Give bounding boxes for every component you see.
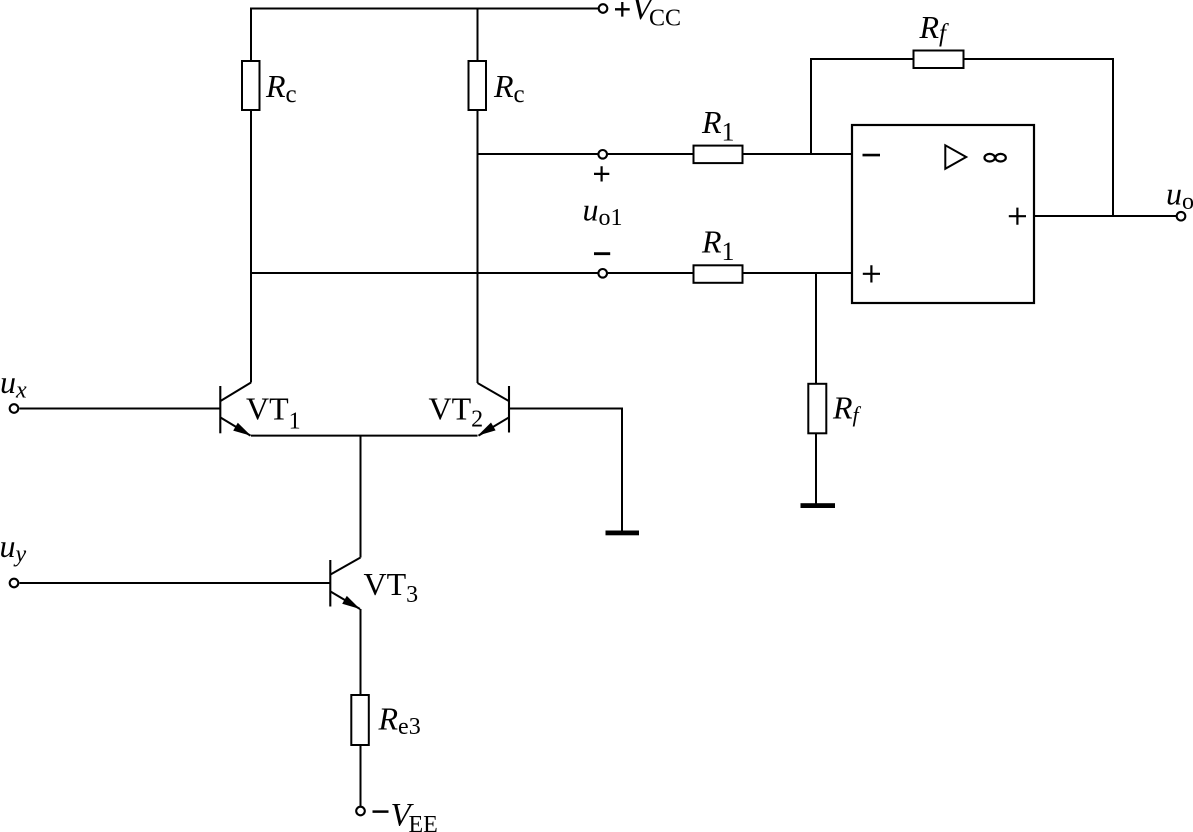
node uo1 minus wire from left collector [251, 272, 598, 274]
wire left collector rail upper [250, 8, 252, 62]
marker plus at uo1 top terminal [594, 166, 609, 181]
marker minus at uo1 bottom terminal [594, 252, 610, 255]
transistor VT3 emitter diagonal [331, 592, 361, 610]
svg-text:Re3: Re3 [378, 701, 421, 741]
ground symbol at Rf [801, 503, 836, 508]
svg-text:uo1: uo1 [583, 192, 623, 232]
wire left collector rail lower [250, 110, 252, 383]
transistor VT3 base bar [329, 560, 331, 607]
wire VT2 base to ground corner [509, 409, 622, 531]
resistor Rf feedback body [914, 51, 964, 69]
wire uo1 plus to R1 [608, 153, 694, 155]
wire feedback top left segment [810, 58, 914, 60]
wire common emitter to VT3 collector [360, 436, 362, 558]
transistor VT1 base bar [219, 386, 221, 433]
svg-text:Rc: Rc [493, 68, 525, 108]
svg-text:Rf: Rf [919, 9, 950, 47]
svg-text:uy: uy [0, 528, 27, 568]
svg-text:R1: R1 [701, 104, 735, 147]
svg-text:VT2: VT2 [429, 391, 484, 433]
wire top supply rail [251, 8, 598, 10]
transistor VT3 emitter arrowhead [342, 596, 360, 609]
svg-text:Rc: Rc [265, 68, 297, 108]
label -VEE minus sign [373, 810, 389, 813]
transistor VT1 collector diagonal [221, 383, 252, 402]
wire noninverting node to Rf ground branch [815, 273, 817, 384]
ground symbol at VT2 base [606, 531, 640, 536]
resistor Re3 body [351, 695, 369, 745]
svg-text:ux: ux [0, 364, 27, 404]
resistor R1 upper body [694, 146, 743, 164]
terminal circle VEE [356, 807, 365, 816]
terminal circle uo1 plus [598, 150, 607, 159]
svg-text:Rf: Rf [832, 390, 862, 428]
transistor VT3 collector diagonal [331, 558, 361, 575]
wire common emitter line [251, 435, 478, 437]
svg-text:VT3: VT3 [364, 566, 419, 608]
wire uo1 minus to R1 [608, 272, 694, 274]
op-amp infinity symbol [985, 154, 1006, 162]
terminal circle VCC [599, 4, 608, 13]
wire feedback right vertical [1112, 58, 1114, 216]
terminal circle uy [10, 579, 19, 588]
wire uy to VT3 base [20, 582, 330, 584]
wire VT3 emitter to Re3 [360, 609, 362, 695]
svg-text:R1: R1 [701, 224, 735, 267]
wire R1 lower to op-amp noninverting input [743, 272, 853, 274]
node uo1 plus wire from right collector [478, 153, 598, 155]
terminal circle ux [10, 404, 19, 413]
label +VCC plus sign [615, 2, 630, 17]
wire ux to VT1 base [20, 408, 220, 410]
wire right collector rail upper [477, 8, 479, 62]
svg-text:VCC: VCC [632, 0, 682, 32]
wire feedback top right segment [964, 58, 1114, 60]
wire Rf to ground [815, 433, 817, 504]
op-amp output plus sign [1009, 208, 1026, 225]
op-amp inverting input minus sign [863, 154, 881, 157]
transistor VT2 emitter arrowhead [478, 423, 496, 436]
svg-text:uo: uo [1166, 176, 1193, 216]
transistor VT1 emitter arrowhead [233, 423, 251, 436]
resistor R1 lower body [694, 265, 743, 283]
resistor Rf ground body [808, 384, 826, 434]
transistor VT2 collector diagonal [478, 383, 509, 401]
svg-text:VT1: VT1 [246, 391, 301, 435]
resistor Rc left body [242, 61, 260, 110]
svg-text:VEE: VEE [391, 798, 438, 832]
terminal circle uo1 minus [598, 269, 607, 278]
op-amp noninverting input plus sign [863, 265, 880, 282]
wire op-amp output [1034, 215, 1176, 217]
wire feedback left vertical [810, 59, 812, 154]
terminal circle uo [1177, 212, 1186, 221]
op-amp triangle symbol [945, 145, 966, 169]
wire R1 upper to op-amp inverting input [743, 153, 853, 155]
wire right collector rail lower [477, 110, 479, 383]
op-amp U1 body [852, 125, 1034, 303]
transistor VT2 base bar [508, 386, 510, 433]
transistor VT2 emitter diagonal [479, 418, 509, 436]
wire Re3 to VEE terminal [360, 745, 362, 806]
transistor VT1 emitter diagonal [221, 418, 251, 436]
resistor Rc right body [469, 61, 487, 110]
